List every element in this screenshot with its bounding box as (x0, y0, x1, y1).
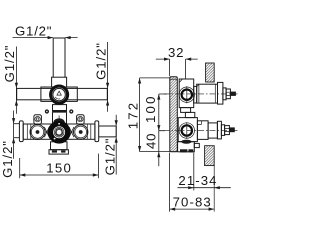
cartridge dome (black) (53, 118, 64, 122)
collar lower (217, 121, 221, 139)
knurl nut upper (226, 89, 230, 99)
wire vertical inlet pipe (53, 38, 65, 77)
foot lower (side) (178, 142, 195, 152)
dimension line lower-left G1/2 (14, 111, 20, 159)
coupling right upper pipe (65, 87, 77, 101)
bellows right (X pattern) (69, 127, 74, 137)
dimension 150 (20, 154, 99, 179)
dimension line upper-right G1/2 (107, 42, 109, 112)
arrow left at pipe right edge (65, 36, 71, 39)
screw ear left (34, 115, 42, 124)
coupling on vertical pipe (52, 77, 67, 87)
wall section upper (hatched) (206, 63, 215, 82)
lower valve body (side) (178, 118, 197, 142)
port circle lower (side) (179, 123, 194, 138)
centerline lower cartridge (164, 130, 238, 132)
screw dot right (69, 109, 73, 113)
mounting plate (hatched section) (170, 77, 178, 152)
arrow right at pipe left edge (48, 36, 54, 39)
valve V1 upper (front) (51, 86, 68, 103)
ring lower (221, 125, 224, 136)
dome black on foot (181, 140, 191, 144)
screw dot left (45, 109, 49, 113)
spindle stub lower (black) (229, 127, 234, 132)
svg-text:G1/2": G1/2" (0, 140, 15, 178)
knurl nut lower (225, 126, 230, 135)
end cap left (19, 121, 23, 142)
black gasket band (52, 111, 67, 113)
wire horizontal upper pipe (17, 88, 108, 99)
spindle stub upper (black) (230, 92, 236, 96)
svg-text:G1/2": G1/2" (94, 42, 109, 80)
dimension line top G1/2 (13, 37, 78, 39)
screw ear right (77, 115, 85, 124)
end cap right (95, 121, 99, 142)
svg-text:172: 172 (126, 101, 141, 130)
svg-text:21-34: 21-34 (178, 173, 217, 188)
upper valve body (side) (179, 79, 194, 108)
svg-text:32: 32 (168, 45, 184, 60)
neck upper cartridge (194, 86, 197, 103)
dimension line upper-left G1/2 (15, 47, 17, 114)
foot black marks (52, 150, 57, 152)
svg-text:G1/2": G1/2" (2, 45, 17, 83)
shared dimension line 100/40 (159, 94, 167, 166)
collar upper (218, 82, 223, 104)
housing below valve V1 (53, 105, 67, 111)
foot black marks (side) (180, 149, 187, 152)
neck to lower body (53, 113, 67, 124)
lower mixer body (23, 124, 95, 139)
svg-text:40: 40 (144, 133, 159, 149)
svg-text:G1/2": G1/2" (102, 138, 117, 176)
bottom stub housing (51, 142, 68, 150)
step block right of foot (194, 143, 199, 147)
cylinder upper cartridge (197, 84, 218, 103)
cylinder lower cartridge (208, 123, 217, 138)
wall face line (213, 166, 215, 212)
outlet stub right (99, 126, 117, 137)
port cap left (circle) (30, 125, 45, 140)
svg-text:G1/2": G1/2" (15, 23, 52, 38)
body seams (27, 124, 91, 139)
foot (49, 150, 68, 154)
svg-text:70-83: 70-83 (173, 194, 212, 209)
connector blocks between valves (side) (181, 108, 191, 113)
bellows left (X pattern) (44, 127, 49, 137)
dimension line lower-right G1/2 (115, 115, 117, 175)
wall section lower (hatched) (205, 146, 215, 166)
port circle upper (side) (179, 87, 194, 102)
svg-text:100: 100 (143, 94, 158, 123)
coupling left upper pipe (41, 87, 53, 101)
ring upper (223, 88, 226, 100)
port cap right (circle) (74, 125, 88, 139)
centerline upper cartridge (164, 93, 238, 95)
knob K1 central (front) (50, 124, 67, 141)
svg-text:150: 150 (46, 161, 72, 176)
mid block lower cartridge (197, 121, 208, 140)
